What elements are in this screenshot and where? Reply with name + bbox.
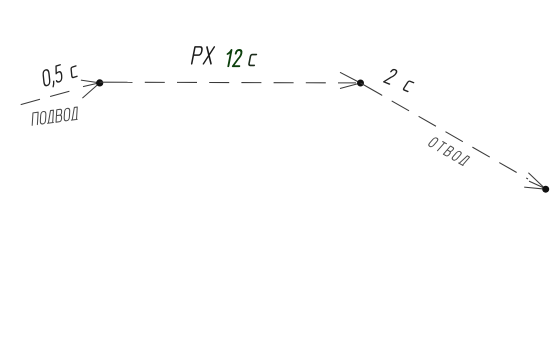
arrowhead at node 1 [81, 80, 100, 98]
label ПОДВОД [31, 107, 80, 125]
node 2 [357, 80, 364, 87]
wire: horizontal dashed run node1 to node2 [100, 81, 356, 84]
arrowhead at node 2 [340, 72, 361, 88]
label ОТВОД [428, 136, 470, 167]
label 2 с [384, 68, 416, 93]
label 12 с (green) [225, 50, 242, 66]
node 1 [96, 79, 103, 86]
wire: подвод dashed lead-in line [21, 91, 72, 105]
wire: отвод dashed line node2 to node3 [361, 83, 529, 179]
node 3 [542, 186, 549, 193]
label РХ [192, 47, 215, 64]
label 0,5 с [40, 61, 80, 90]
arrowhead at node 3 [524, 173, 546, 189]
